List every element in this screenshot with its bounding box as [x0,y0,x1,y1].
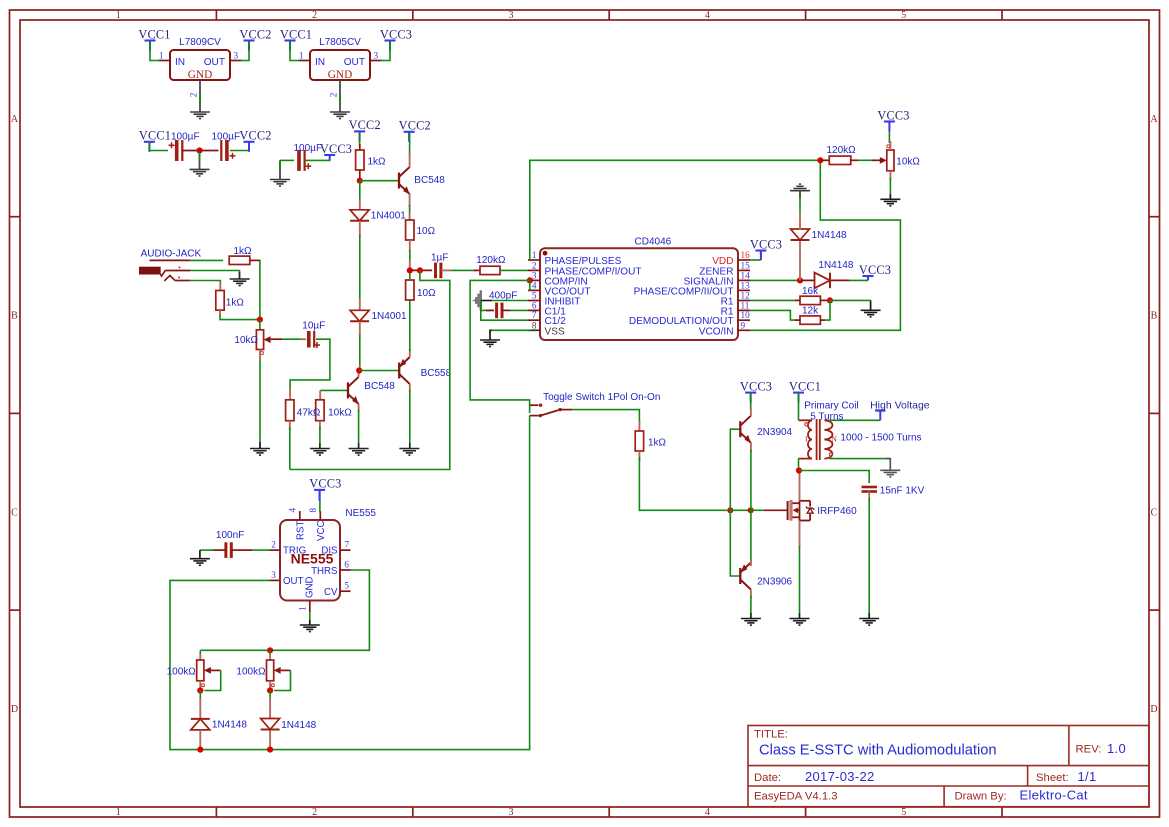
power flag VCC3 (VDD) [750,237,782,254]
pin 1 of L7805CV [298,60,310,62]
svg-text:IRFP460: IRFP460 [817,506,857,517]
power flag VCC2 (1k bias) [349,118,381,141]
wire C 100nF to ground [212,549,226,551]
svg-text:1: 1 [159,50,164,60]
diode D 1N4148 (discharge 1) [191,719,210,730]
pot 2 wiper wrap [281,669,291,671]
pin 2 (TRIG) of NE555 [270,540,307,557]
svg-text:High Voltage: High Voltage [870,400,930,412]
svg-text:VCC3: VCC3 [309,477,341,491]
svg-text:14: 14 [741,270,751,280]
junction driver emitters [748,507,754,513]
wire R 10 to junction [409,240,411,252]
svg-text:CD4046: CD4046 [635,237,672,248]
svg-text:Date:: Date: [754,772,781,784]
svg-text:3: 3 [271,570,276,580]
power flag VCC2 (filter caps) [239,129,271,152]
junction SIGNAL/IN [797,277,803,283]
power flag VCC3 (NE555) [309,477,341,500]
svg-text:7: 7 [344,540,349,550]
svg-text:16: 16 [741,250,751,260]
ground below NE555 [300,625,320,632]
wire R 1k to junction [220,315,260,320]
wire 2N3906 collector to ground [750,590,752,599]
svg-text:VCC3: VCC3 [740,379,772,393]
junction driver bases [727,507,733,513]
svg-text:VCC1: VCC1 [138,27,170,41]
svg-text:1kΩ: 1kΩ [648,437,667,448]
ground (audio jack) [230,279,250,286]
pin 13 (PHASE/COMP/II/OUT) of CD4046 [634,280,750,297]
wire D 1N4148 to inverted ground [799,212,801,230]
ground at C 100nF [190,559,210,566]
toggle switch SW 1Pol On-On [530,392,661,418]
capacitor C 1uF [436,263,441,279]
svg-text:OUT: OUT [283,576,304,587]
pin 6 (C1/1) of CD4046 [528,300,566,317]
junction BC548 collector / BC558 base [356,367,362,373]
svg-text:TRIG: TRIG [283,546,306,557]
svg-text:12k: 12k [802,306,819,317]
resistor R 1k (shunt) [216,291,224,311]
wire jack ring to ground [165,270,190,272]
pin 9 (VCO/IN) of CD4046 [699,320,750,337]
voltage regulator L7809CV [170,37,230,81]
wire switch pole to R 1k [560,409,572,411]
svg-text:2N3906: 2N3906 [757,577,792,588]
capacitor 100uF (input filter) [177,140,183,161]
junction rail 1 [197,747,203,753]
power flag VCC3 (clamp) [859,263,891,280]
ground below C 15nF [859,619,879,626]
resistor R 120k (VCO) [829,156,851,164]
svg-text:1µF: 1µF [431,252,448,263]
pin 4 (RST) of NE555 [288,508,307,541]
net flag High Voltage [870,400,930,421]
potentiometer RP 10k (volume) [256,330,270,350]
svg-text:1000 - 1500 Turns: 1000 - 1500 Turns [840,432,921,443]
svg-text:VCC2: VCC2 [239,129,271,143]
svg-text:100µF: 100µF [212,132,241,143]
pin 8 (VSS) of CD4046 [528,320,565,337]
svg-text:Drawn By:: Drawn By: [955,791,1007,803]
svg-text:VCC3: VCC3 [859,263,891,277]
pin 3 (OUT) of NE555 [270,570,304,587]
pin 4 (VCO/OUT) of CD4046 [528,280,590,297]
svg-text:5: 5 [901,807,906,818]
wire D 1N4001 (1) to D 1N4001 (2) [359,221,361,237]
power flag VCC3 (filter cap) [320,142,352,160]
svg-text:B: B [11,311,18,322]
svg-text:OUT: OUT [204,57,225,68]
svg-text:10kΩ: 10kΩ [234,335,258,346]
pot pin marker [887,145,890,148]
wire BC558 collector to ground [409,384,411,392]
ground below trim pot [880,199,900,206]
wire VCC1 to L7805 pin1 [290,41,300,61]
wire pot to ground [889,171,891,180]
pot pin marker [271,684,274,687]
svg-text:A: A [1150,114,1158,125]
svg-text:10kΩ: 10kΩ [896,156,920,167]
wire VCC1 to L7809 pin1 [150,41,160,61]
svg-text:VCC2: VCC2 [239,27,271,41]
wire junction to R 12k [825,300,830,320]
power flag VCC1 (filter caps) [139,129,171,152]
power flag VCC1 (L7805 input) [280,27,312,50]
wire VCC1 to primary [798,393,800,420]
svg-text:100kΩ: 100kΩ [236,667,266,678]
junction pot 1 bottom [197,687,203,693]
svg-text:OUT: OUT [344,57,365,68]
wire junction to C 15nF [799,471,869,484]
transistor Q BC548 (top) [399,167,410,194]
svg-text:VDD: VDD [712,256,733,267]
svg-text:1: 1 [532,250,537,260]
svg-text:10µF: 10µF [302,320,325,331]
capacitor C 10uF (coupling) [309,331,314,348]
wire R 1k to junction [359,170,361,181]
svg-text:8: 8 [308,508,318,513]
wire junction up to D 1N4148 (vertical) [799,241,801,280]
wire R 10 to junction [409,270,411,280]
svg-text:IN: IN [175,57,185,68]
svg-text:1: 1 [116,807,121,818]
svg-text:6: 6 [344,560,349,570]
capacitor C 100nF [226,542,231,558]
svg-text:BC548: BC548 [414,175,445,186]
svg-text:VCC3: VCC3 [320,142,352,156]
pin 1 (GND) of NE555 [298,576,316,611]
wire secondary bottom to ground [829,458,890,460]
svg-text:2: 2 [329,92,339,97]
svg-text:EasyEDA V4.1.3: EasyEDA V4.1.3 [754,791,838,803]
svg-text:REV:: REV: [1076,744,1102,756]
wire pin6 row [481,301,491,311]
wire BC548 emitter to ground [358,404,360,412]
svg-text:VCC3: VCC3 [380,27,412,41]
wire pin11 to R 12k [750,310,796,320]
svg-text:BC558: BC558 [421,368,452,379]
wire MOSFET source to ground [799,521,801,549]
svg-text:1kΩ: 1kΩ [368,157,387,168]
wire pin7 row [481,310,528,320]
svg-text:NE555: NE555 [345,508,376,519]
wire R 10k to ground [319,421,321,430]
pin 14 (SIGNAL/IN) of CD4046 [684,270,751,287]
capacitor C 15nF 1KV [862,487,878,492]
svg-text:GND: GND [305,576,316,598]
pot 1 wiper wrap [211,669,221,671]
svg-text:100µF: 100µF [294,143,323,154]
svg-text:Class E-SSTC with Audiomodulat: Class E-SSTC with Audiomodulation [759,743,997,759]
wire R 1k (tip) down to junction [259,260,261,319]
svg-text:1N4148: 1N4148 [812,230,847,241]
svg-text:120kΩ: 120kΩ [476,255,506,266]
ground (signal, rotated) at INHIBIT [474,290,481,310]
wire CD4046 pin1 to VCO control row [530,160,821,260]
wire VCC3 to pin 8 [319,491,321,502]
ground (inverted) above diode [790,184,810,191]
svg-text:1: 1 [116,10,121,21]
pin 1 (PHASE/PULSES) of CD4046 [528,250,622,267]
wire pin12 to R 16k [750,299,796,301]
wire caps junction to ground [199,151,201,170]
svg-text:3: 3 [532,270,537,280]
resistor R 1k (tip series) [229,256,250,264]
junction audio divider [257,317,263,323]
svg-text:VSS: VSS [545,326,565,337]
junction C 1uF / feedback [417,267,423,273]
svg-text:3: 3 [509,10,514,21]
junction filter caps [196,147,202,153]
junction 1k / BC548 base [357,178,363,184]
svg-text:1N4148: 1N4148 [212,719,247,730]
svg-text:15nF 1KV: 15nF 1KV [880,486,925,497]
wire BC548 emitter to R 10 [409,194,411,208]
svg-text:Primary Coil: Primary Coil [804,400,858,411]
junction pot 2 bottom [267,687,273,693]
power flag VCC1 (L7809 input) [138,27,170,50]
transistor Q BC548 (preamp) [348,377,359,404]
wire COMP/IN to toggle switch [470,280,530,413]
svg-text:L7805CV: L7805CV [319,37,361,48]
svg-text:5: 5 [532,291,537,301]
svg-text:100µF: 100µF [171,132,200,143]
voltage regulator L7805CV [310,37,370,81]
resistor R 10 (upper) [406,220,414,240]
transistor Q BC558 [399,357,410,384]
ground below L7809CV [190,112,210,119]
wire pot wiper to C 10uF [271,338,282,340]
svg-text:VCC2: VCC2 [349,118,381,132]
wire pot to ground [259,350,261,449]
svg-text:12: 12 [741,291,751,301]
power flag VCC1 (primary) [789,379,821,402]
svg-text:VCC1: VCC1 [139,129,171,143]
wires diodes to rail [199,730,201,750]
wire ground to C 100uF (VCC3) [279,160,281,179]
potentiometer RP 100k (2) [267,660,281,681]
pin 7 (C1/2) of CD4046 [528,310,566,327]
transformer T1 (tesla coil) [799,419,833,460]
svg-text:5: 5 [344,581,349,591]
svg-text:RST: RST [296,521,307,540]
svg-text:A: A [11,114,19,125]
resistor R 10 (lower) [406,280,414,300]
ground left of C 100uF VCC3 [270,180,290,187]
title block [748,726,1149,807]
svg-text:2: 2 [532,260,537,270]
svg-text:1.0: 1.0 [1107,741,1126,756]
svg-text:120kΩ: 120kΩ [827,145,857,156]
diode D 1N4001 (lower) [350,310,369,321]
pin 11 (R1) of CD4046 [721,300,750,317]
ground below BC548 emitter [349,449,369,456]
wire feedback to bottom rail [290,270,450,469]
svg-text:10Ω: 10Ω [417,226,436,237]
wire pin14 to junction [750,279,800,281]
ground below BC558 [399,449,419,456]
svg-text:2017-03-22: 2017-03-22 [805,769,875,784]
capacitor 100uF (VCC3 filter) [299,150,305,171]
svg-text:VCC3: VCC3 [877,108,909,122]
wire C 100uF to VCC3 [305,156,330,160]
svg-text:11: 11 [741,300,750,310]
pin 10 (DEMODULATION/OUT) of CD4046 [629,310,750,327]
junction pin3/pin4 [527,277,533,283]
svg-text:C: C [1151,507,1158,518]
svg-text:3: 3 [374,50,379,60]
wire pots row to pot 2 [269,650,271,656]
svg-text:CV: CV [324,587,338,598]
wire pin3 to pin4 [529,280,531,290]
pin 5 (CV) of NE555 [324,581,350,598]
junction rail 2 [267,747,273,753]
svg-text:1/1: 1/1 [1078,769,1097,784]
wire jack sleeve to R 1k vertical [175,280,190,282]
wire node to 2N3906 emitter [750,510,752,564]
junction pots row [267,647,273,653]
svg-text:THRS: THRS [311,566,338,577]
svg-text:VCC3: VCC3 [750,237,782,251]
svg-text:1N4148: 1N4148 [818,260,853,271]
pin 3 of L7809CV [230,60,242,62]
svg-text:VCO/IN: VCO/IN [699,326,734,337]
svg-text:Sheet:: Sheet: [1036,772,1069,784]
pot pin marker [202,684,205,687]
svg-text:2: 2 [189,92,199,97]
wire junction to ground [830,299,871,301]
wire C 1uF to R 120k [441,269,451,271]
svg-text:4: 4 [532,280,537,290]
pin 7 (DIS) of NE555 [321,540,350,557]
svg-text:N: N [832,435,838,444]
svg-text:16k: 16k [802,286,819,297]
pot pin marker [260,352,263,355]
transistor Q 2N3906 [740,563,751,590]
wire pin16 to VCC3 [750,259,761,261]
junction VCO control [817,157,823,163]
svg-text:1kΩ: 1kΩ [234,246,253,257]
svg-text:100kΩ: 100kΩ [167,667,197,678]
resistor R 47k [286,400,294,421]
resistor R 10k (base) [316,400,324,421]
capacitor 100uF (output filter) [221,140,227,161]
pin 2 (PHASE/COMP/I/OUT) of CD4046 [528,260,642,277]
wire VCC1 to C 100uF [149,142,168,151]
svg-text:47kΩ: 47kΩ [297,408,321,419]
wire MOSFET drain to junction [799,471,801,501]
svg-text:2: 2 [271,540,276,550]
IC U CD4046 [540,237,738,341]
wire D 1N4001 (2) to junction [359,321,361,337]
svg-text:13: 13 [741,280,751,290]
wire C 400pF to pin6 [502,309,510,311]
pin 8 (VCC) of NE555 [308,508,327,542]
svg-text:VCC1: VCC1 [280,27,312,41]
resistor R 120k (loop filter) [480,266,500,274]
svg-text:GND: GND [188,69,212,81]
svg-text:10kΩ: 10kΩ [328,408,352,419]
pin 16 (VDD) of CD4046 [712,250,750,267]
wire L7809 pin3 to VCC2 [240,41,249,61]
power flag VCC3 (driver) [740,379,772,402]
wire VCO/IN loop [750,160,900,330]
ground at R 16k [861,310,881,317]
ground below L7805CV [330,112,350,119]
svg-text:4: 4 [705,10,710,21]
junction R 16k / R 12k [827,297,833,303]
svg-text:100nF: 100nF [216,530,244,541]
capacitor C 400pF [497,303,502,319]
ground at VSS [480,340,500,347]
wire jack tip to R 1k [150,259,191,261]
wire BC558 emitter up to R 10 [409,349,411,357]
resistor R 12k [800,316,820,324]
potentiometer RP 100k (1) [197,660,211,681]
svg-text:2: 2 [312,10,317,21]
pin 3 of L7805CV [370,60,382,62]
wire bases vertical [730,429,740,510]
ground below volume pot [250,449,270,456]
junction R10 / C 1uF [407,267,413,273]
wire pot 1 to diode [199,691,201,701]
wire VCC2 to R 1k [359,132,361,146]
pin 2 (GND) of L7809CV [199,80,201,112]
transistor Q 2N3904 [740,416,751,443]
svg-text:1: 1 [299,50,304,60]
svg-text:PHASE/PULSES: PHASE/PULSES [545,256,622,267]
junction drain / primary / C 15nF [796,467,802,473]
wire R 47k to bottom rail [289,421,291,430]
diode D 1N4001 (upper) [350,210,369,221]
power flag VCC2 (L7809 output) [239,27,271,50]
wire R 10k to BC548 base [320,389,348,391]
wire 2N3904 emitter to node [750,443,752,453]
svg-text:DIS: DIS [321,546,338,557]
svg-text:9: 9 [741,320,746,330]
svg-text:5: 5 [901,10,906,21]
svg-text:2N3904: 2N3904 [757,427,792,438]
svg-text:VCC2: VCC2 [399,119,431,133]
wire R 120k to CD4046 pin2 [500,269,528,271]
svg-text:15: 15 [741,260,751,270]
svg-text:D: D [1150,704,1157,715]
diode D 1N4148 (discharge 2) [261,719,280,730]
svg-text:AUDIO-JACK: AUDIO-JACK [141,249,202,260]
svg-text:TITLE:: TITLE: [754,729,788,741]
svg-text:L7809CV: L7809CV [179,37,221,48]
svg-text:1N4148: 1N4148 [281,720,316,731]
svg-text:10Ω: 10Ω [417,288,436,299]
wire gate node to MOSFET gate [751,509,764,511]
wire primary bottom to drain junction [798,459,800,471]
wire junction to D 1N4001 (1) [359,181,361,201]
ground below filter caps [190,169,210,176]
pin 1 of L7809CV [158,60,170,62]
svg-text:3: 3 [509,807,514,818]
wire junction to BC558 base [359,370,399,372]
svg-text:1kΩ: 1kΩ [226,298,245,309]
pin 5 (INHIBIT) of CD4046 [528,291,580,308]
svg-text:VCC: VCC [316,521,327,541]
ground below 2N3906 [741,619,761,626]
diode D 1N4148 (horizontal) [815,273,831,289]
svg-text:GND: GND [328,69,352,81]
power flag VCC3 (L7805 output) [380,27,412,50]
svg-text:Toggle Switch 1Pol On-On: Toggle Switch 1Pol On-On [543,392,660,403]
